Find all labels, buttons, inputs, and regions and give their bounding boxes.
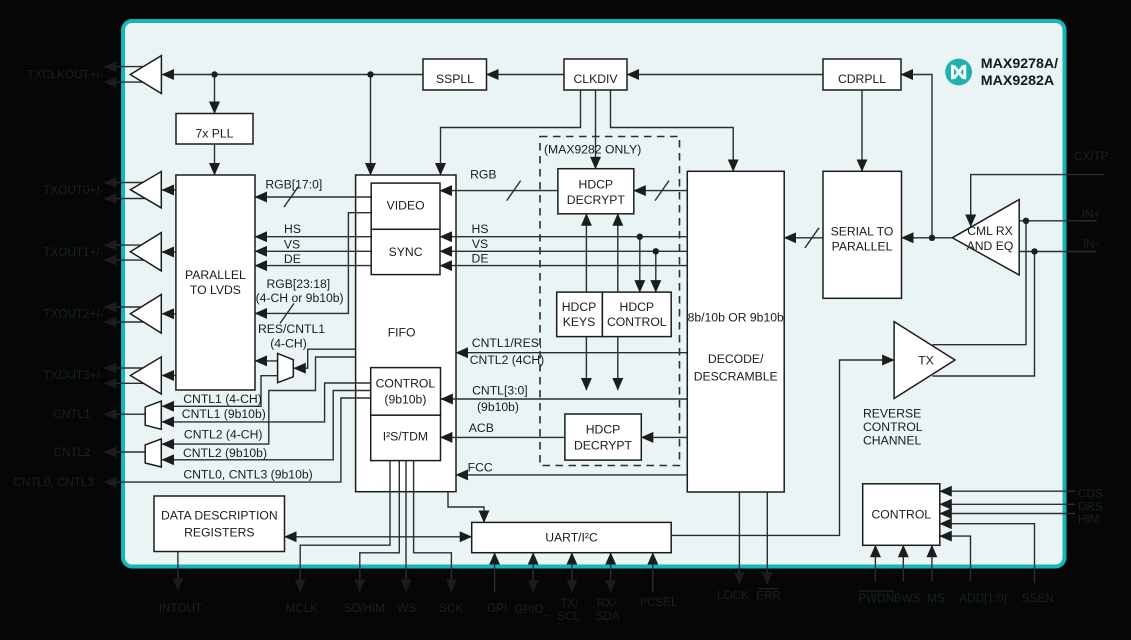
wire FIFO to UART — [448, 492, 484, 523]
buffer TXOUT3 — [130, 357, 161, 394]
svg-text:GPIO_: GPIO_ — [514, 603, 550, 616]
wire HDCP KEYS down — [585, 337, 587, 390]
block PARALLEL TO LVDS — [176, 175, 255, 390]
svg-text:CNTL0, CNTL3 (9b10b): CNTL0, CNTL3 (9b10b) — [183, 468, 312, 482]
svg-text:CNTL2 (4-CH): CNTL2 (4-CH) — [184, 427, 263, 441]
svg-text:(4-CH or 9b10b): (4-CH or 9b10b) — [256, 291, 344, 305]
wire branch to FIFO top — [370, 75, 372, 176]
junction dot HS branch — [637, 234, 643, 240]
wire ACB HDCP DECRYPT to I2S/TDM — [440, 436, 565, 438]
wire SERIAL TO PARALLEL to decoder — [784, 237, 823, 239]
wire CML RX to SERIAL TO PARALLEL — [902, 237, 953, 239]
wire SD/HIM from I2S/TDM — [360, 461, 400, 592]
wire RX/SDA pin — [610, 553, 612, 592]
svg-text:TX/: TX/ — [560, 597, 579, 610]
svg-text:I²CSEL: I²CSEL — [640, 596, 678, 609]
wire HDCP CONTROL down — [617, 337, 619, 390]
wire VS decoder to SYNC — [440, 250, 687, 252]
svg-text:PWDN: PWDN — [858, 592, 894, 605]
svg-text:TXOUT3+/-: TXOUT3+/- — [43, 369, 103, 382]
svg-text:CNTL1 (9b10b): CNTL1 (9b10b) — [182, 407, 266, 421]
wire VS SYNC to PARALLEL TO LVDS — [255, 250, 371, 252]
block HDCP KEYS — [557, 292, 603, 337]
wire DRS to CONTROL — [940, 503, 1075, 505]
svg-text:CONTROL: CONTROL — [376, 377, 436, 391]
block CONTROL 9b10b — [371, 368, 441, 416]
wire riser to CDRPLL input — [901, 75, 932, 238]
mux CNTL2 — [145, 439, 161, 467]
wire TXOUT3- pin — [105, 382, 151, 384]
svg-text:REVERSE: REVERSE — [863, 407, 921, 421]
block SSPLL — [423, 59, 487, 90]
wire RES/CNTL1 mux output — [255, 360, 278, 362]
bus slash SERIAL TO PARALLEL output — [805, 228, 819, 248]
svg-text:MCLK: MCLK — [286, 602, 319, 615]
svg-text:SSEN: SSEN — [1022, 592, 1054, 605]
svg-text:IN-: IN- — [1083, 237, 1099, 250]
svg-text:HS: HS — [472, 222, 489, 236]
wire TXOUT0- pin — [105, 198, 151, 200]
wire TXCLKOUT+ pin — [105, 66, 151, 68]
block CDRPLL — [823, 59, 901, 90]
svg-text:SYNC: SYNC — [389, 245, 423, 259]
wire IN- — [1019, 251, 1096, 253]
svg-text:CONTROL: CONTROL — [872, 508, 932, 522]
wire HIM to CONTROL — [940, 513, 1075, 515]
wire HDCP KEYS to HDCP DECRYPT — [585, 214, 587, 292]
wire RGB[23:18] VIDEO to PARALLEL TO LVDS — [255, 213, 371, 314]
svg-text:ACB: ACB — [469, 421, 494, 435]
wire TXOUT0+ pin — [105, 182, 151, 184]
svg-text:SERIAL TO: SERIAL TO — [831, 225, 894, 239]
block CLKDIV — [564, 59, 627, 90]
junction dot IN- — [1031, 248, 1037, 254]
svg-text:VS: VS — [472, 237, 488, 251]
svg-text:HDCP: HDCP — [620, 300, 655, 314]
svg-text:TXOUT0+/-: TXOUT0+/- — [43, 184, 103, 197]
wire CNTL2 9b10b from CONTROL 9b10b — [162, 391, 371, 460]
svg-text:8b/10b OR 9b10b: 8b/10b OR 9b10b — [688, 310, 784, 324]
buffer TXOUT0 — [130, 172, 161, 208]
wire PWDN pin — [874, 545, 876, 581]
buffer TXOUT2 — [130, 295, 161, 334]
wire CLKDIV right branch to decoder — [611, 90, 734, 171]
wire INTOUT pin — [177, 552, 179, 591]
buffer TXOUT1 — [130, 233, 161, 271]
svg-text:HIM: HIM — [1078, 513, 1099, 526]
wire IN+ — [1019, 220, 1096, 222]
svg-text:RGB[23:18]: RGB[23:18] — [266, 277, 330, 291]
svg-text:TO LVDS: TO LVDS — [190, 283, 241, 297]
svg-text:AND EQ: AND EQ — [967, 239, 1014, 253]
svg-text:FIFO: FIFO — [388, 326, 416, 340]
chip body MAX9278A/MAX9282A — [123, 21, 1065, 567]
svg-text:(MAX9282 ONLY): (MAX9282 ONLY) — [544, 142, 641, 156]
junction dot VS branch — [653, 248, 659, 254]
svg-text:INTOUT: INTOUT — [159, 602, 202, 615]
block 8b/10b OR 9b10b DECODE/DESCRAMBLE — [687, 171, 784, 492]
dashed region MAX9282 ONLY — [540, 137, 680, 466]
svg-text:CNTL2: CNTL2 — [53, 446, 90, 459]
svg-text:MAX9282A: MAX9282A — [981, 73, 1054, 89]
svg-text:(4-CH): (4-CH) — [270, 337, 307, 351]
svg-text:IN+: IN+ — [1082, 208, 1101, 221]
wire ADD[1:0] to CONTROL — [940, 536, 971, 581]
wire decoder to HDCP DECRYPT top — [634, 190, 688, 192]
block DATA DESCRIPTION REGISTERS — [154, 496, 285, 552]
junction dot IN+ — [1023, 218, 1029, 224]
svg-text:SSPLL: SSPLL — [436, 72, 474, 86]
wire MCLK from I2S/TDM — [300, 461, 390, 592]
svg-text:PARALLEL: PARALLEL — [185, 268, 246, 282]
block UART/I2C — [472, 522, 672, 552]
svg-text:CONTROL: CONTROL — [863, 420, 923, 434]
wire GPI pin — [494, 553, 496, 592]
wire HS decoder to SYNC — [440, 236, 687, 238]
wire TXOUT2- pin — [105, 321, 151, 323]
svg-text:CHANNEL: CHANNEL — [863, 433, 921, 447]
svg-text:CNTL1: CNTL1 — [53, 408, 90, 421]
svg-text:MS: MS — [927, 592, 945, 605]
svg-text:PARALLEL: PARALLEL — [832, 240, 893, 254]
wire I2CSEL pin — [652, 553, 654, 592]
wire PARALLEL TO LVDS to TXOUT3 — [162, 375, 176, 377]
svg-text:LOCK: LOCK — [717, 589, 749, 602]
block 7x PLL — [176, 114, 253, 145]
svg-text:HDCP: HDCP — [579, 178, 614, 192]
svg-text:RX/: RX/ — [597, 597, 617, 610]
wire branch to 7x PLL — [214, 75, 216, 114]
wire DE SYNC to PARALLEL TO LVDS — [255, 265, 371, 267]
bus slash RGB to VIDEO — [507, 181, 521, 201]
svg-text:(9b10b): (9b10b) — [384, 393, 426, 407]
wire BWS pin — [902, 545, 904, 581]
wire CNTL1 mux to pin — [105, 413, 146, 415]
mux CNTL1 — [145, 401, 161, 429]
svg-text:CNTL2 (4CH): CNTL2 (4CH) — [470, 353, 545, 367]
wire HS branch to HDCP CONTROL — [639, 237, 641, 292]
wire CNTL[3:0] to CONTROL 9b10b — [441, 398, 687, 400]
svg-text:DRS: DRS — [1078, 501, 1103, 514]
wire HS SYNC to PARALLEL TO LVDS — [255, 236, 371, 238]
wire MS pin — [931, 545, 933, 581]
svg-text:ADD[1:0]: ADD[1:0] — [959, 592, 1006, 605]
svg-text:CLKDIV: CLKDIV — [573, 72, 618, 86]
wire TXOUT1+ pin — [105, 244, 151, 246]
junction dot CDRPLL riser — [929, 235, 935, 241]
wire RGB[17:0] VIDEO to PARALLEL TO LVDS — [255, 196, 371, 198]
svg-text:CML RX: CML RX — [967, 224, 1013, 238]
svg-text:CNTL0, CNTL3: CNTL0, CNTL3 — [13, 476, 94, 489]
svg-text:CNTL1 (4-CH): CNTL1 (4-CH) — [183, 392, 262, 406]
svg-text:ERR: ERR — [756, 590, 781, 603]
wire WS from I2S/TDM — [405, 461, 407, 592]
wire PARALLEL TO LVDS to TXOUT2 — [162, 313, 176, 315]
wire SSPLL to TXCLKOUT buffer — [162, 74, 423, 76]
wire TX/SCL pin — [571, 553, 573, 592]
svg-text:VIDEO: VIDEO — [387, 198, 425, 212]
svg-text:DE: DE — [472, 252, 489, 266]
wire CLKDIV left branch to FIFO — [441, 90, 581, 175]
svg-text:GPI: GPI — [487, 602, 507, 615]
bus slash decoder to HDCP — [655, 181, 669, 201]
svg-text:CDRPLL: CDRPLL — [838, 72, 886, 86]
wire TXOUT3+ pin — [105, 367, 151, 369]
svg-text:7x PLL: 7x PLL — [196, 127, 234, 141]
svg-text:DECODE/: DECODE/ — [708, 352, 764, 366]
svg-text:TXCLKOUT+/-: TXCLKOUT+/- — [27, 68, 103, 81]
svg-text:DATA DESCRIPTION: DATA DESCRIPTION — [161, 509, 278, 523]
wire decoder to HDCP DECRYPT bottom — [641, 436, 687, 438]
wire GPIO pin — [532, 553, 534, 592]
wire LOCK pin — [738, 492, 740, 584]
maxim logo — [945, 59, 972, 86]
svg-text:RES/CNTL1: RES/CNTL1 — [258, 322, 325, 336]
svg-text:FCC: FCC — [468, 460, 493, 474]
mux RES/CNTL1 — [278, 353, 294, 382]
block HDCP DECRYPT top — [558, 169, 634, 214]
amplifier CML RX AND EQ — [952, 200, 1019, 276]
wire VS branch to HDCP CONTROL — [655, 251, 657, 292]
svg-text:CNTL1/RES,: CNTL1/RES, — [472, 336, 542, 350]
svg-text:SCK: SCK — [439, 602, 463, 615]
svg-text:DESCRAMBLE: DESCRAMBLE — [694, 370, 778, 384]
svg-text:TXOUT1+/-: TXOUT1+/- — [43, 246, 103, 259]
svg-text:CNTL2 (9b10b): CNTL2 (9b10b) — [183, 446, 267, 460]
svg-text:TXOUT2+/-: TXOUT2+/- — [43, 308, 103, 321]
junction dot FIFO branch — [367, 71, 373, 77]
junction dot 7x PLL branch — [211, 71, 217, 77]
svg-text:RGB[17:0]: RGB[17:0] — [265, 177, 322, 191]
wire TX lower output to IN- — [933, 252, 1035, 377]
wire CDRPLL to CLKDIV — [627, 74, 823, 76]
wire CNTL2 mux to pin — [105, 451, 146, 453]
svg-text:KEYS: KEYS — [563, 315, 596, 329]
block VIDEO — [371, 183, 440, 229]
svg-text:HS: HS — [284, 222, 301, 236]
svg-text:MAX9278A/: MAX9278A/ — [981, 56, 1058, 72]
wire SSEN to CONTROL — [940, 524, 1035, 583]
wire CLKDIV middle branch to HDCP DECRYPT — [595, 90, 597, 169]
svg-text:RGB: RGB — [470, 168, 496, 182]
buffer TXCLKOUT — [130, 56, 161, 94]
wire TX upper output to IN+ — [933, 221, 1027, 345]
wire TXOUT1- pin — [105, 259, 151, 261]
wire FIFO to RES/CNTL1 mux input — [294, 349, 356, 368]
svg-text:CX/TP: CX/TP — [1074, 150, 1109, 163]
wire TXOUT2+ pin — [105, 306, 151, 308]
wire DE decoder to SYNC — [440, 265, 687, 267]
block CONTROL — [863, 484, 940, 546]
svg-text:(9b10b): (9b10b) — [477, 400, 519, 414]
block HDCP CONTROL — [602, 292, 671, 337]
wire CDRPLL to SERIAL TO PARALLEL — [861, 90, 863, 171]
svg-text:DECRYPT: DECRYPT — [574, 438, 633, 452]
block SYNC — [371, 229, 440, 274]
wire HDCP DECRYPT to VIDEO RGB — [440, 190, 558, 192]
svg-text:DECRYPT: DECRYPT — [567, 193, 626, 207]
wire 7x PLL to PARALLEL TO LVDS — [214, 144, 216, 175]
wire PARALLEL TO LVDS to TXOUT0 — [162, 189, 176, 191]
bus slash RGB[23:18] — [280, 303, 294, 323]
wire CDS to CONTROL — [940, 490, 1075, 492]
svg-text:VS: VS — [284, 237, 300, 251]
svg-text:SCL: SCL — [557, 610, 580, 623]
svg-text:SD/HIM: SD/HIM — [344, 602, 385, 615]
svg-text:BWS: BWS — [894, 592, 921, 605]
svg-text:TX: TX — [918, 353, 934, 367]
wire CX/TP to CML RX — [971, 175, 1105, 227]
wire SCK from I2S/TDM — [414, 461, 452, 592]
wire CNTL2 4-CH from FIFO — [162, 357, 356, 444]
wire CNTL1/RES CNTL2 to FIFO — [456, 352, 687, 354]
amplifier TX reverse channel — [894, 322, 955, 399]
svg-text:WS: WS — [397, 602, 416, 615]
svg-text:SDA: SDA — [596, 610, 620, 623]
svg-text:HDCP: HDCP — [562, 300, 597, 314]
wire DATA DESCRIPTION REGISTERS to UART — [285, 536, 472, 538]
wire UART to TX input — [671, 360, 894, 535]
wire FCC decoder to FIFO — [456, 474, 687, 476]
wire HDCP CONTROL to HDCP DECRYPT — [617, 214, 619, 292]
svg-text:CDS: CDS — [1078, 488, 1103, 501]
block HDCP DECRYPT bottom — [565, 414, 641, 460]
bus slash RGB[17:0] — [284, 187, 298, 207]
wire CNTL1 4-CH to RES/CNTL1 mux — [162, 376, 278, 407]
wire PARALLEL TO LVDS to TXOUT1 — [162, 251, 176, 253]
svg-text:I²S/TDM: I²S/TDM — [383, 430, 428, 444]
svg-text:CNTL[3:0]: CNTL[3:0] — [472, 384, 528, 398]
block I2S/TDM — [371, 415, 441, 460]
wire TXCLKOUT- pin — [105, 81, 151, 83]
svg-text:DE: DE — [284, 252, 301, 266]
wire CNTL1 9b10b from CONTROL 9b10b — [162, 383, 371, 422]
block SERIAL TO PARALLEL — [823, 171, 902, 298]
svg-text:UART/I²C: UART/I²C — [545, 531, 598, 545]
svg-text:HDCP: HDCP — [586, 423, 621, 437]
wire CLKDIV to SSPLL — [487, 74, 565, 76]
wire ERR pin — [766, 492, 768, 584]
wire CNTL0 CNTL3 9b10b — [105, 398, 371, 482]
svg-text:REGISTERS: REGISTERS — [184, 526, 254, 540]
block FIFO — [356, 175, 456, 492]
svg-text:CONTROL: CONTROL — [607, 315, 667, 329]
